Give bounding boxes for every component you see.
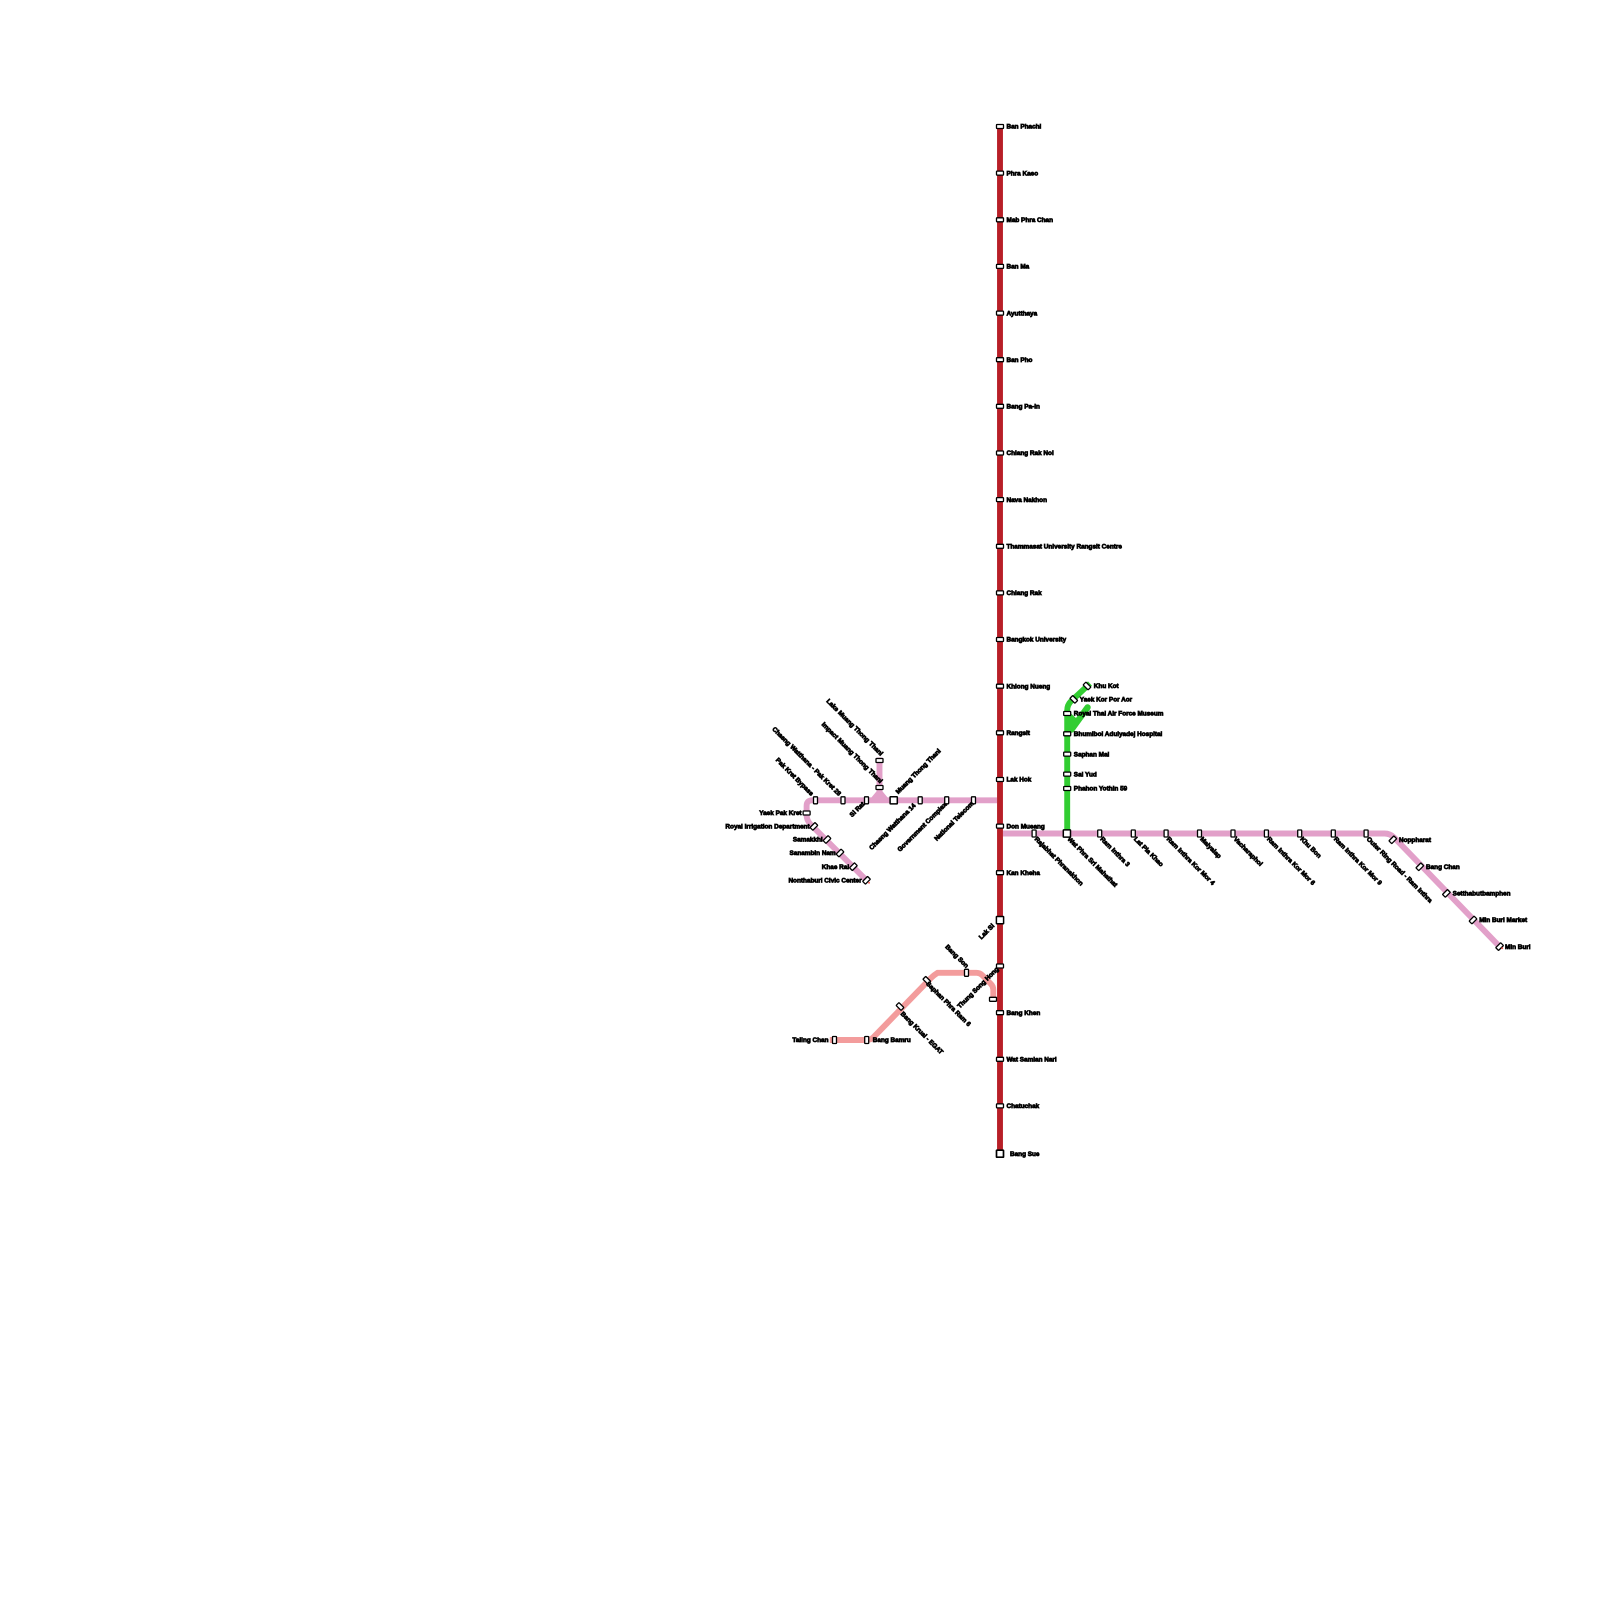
station Impact Muang Thong Thani (Pink line branch, rotated label) [820,721,884,789]
MRT Pink line Muang Thong Thani branch (vertical spur with flare) [869,758,890,801]
station Lake Muang Thong Thani (Pink line branch terminus, rotated label) [825,698,885,763]
svg-text:Bang Sue: Bang Sue [1010,1151,1040,1158]
station Chaeng Watthana - Pak Kret 28 (Pink line, rotated label above) [770,726,845,804]
station Kan Kheha (Dark Red line) [997,870,1041,877]
station Outer Ring Road - Ram Inthra (Pink line, rotated label below) [1364,830,1434,905]
station Don Mueang (Dark Red line) [997,823,1045,830]
station Vacharaphol (Pink line, rotated label below) [1231,830,1264,868]
station Rangsit (Dark Red line) [997,730,1031,737]
svg-text:Saphan Mai: Saphan Mai [1074,751,1110,758]
station Min Buri Market (Pink line, tilted) [1469,916,1528,924]
svg-text:Bang Pa-in: Bang Pa-in [1007,404,1040,411]
station Mab Phra Chan (Dark Red line) [997,217,1054,224]
station Bhumibol Adulyadej Hospital (BTS Sukhumvit line) [1064,731,1163,738]
svg-text:Chatuchak: Chatuchak [1007,1103,1040,1110]
station Yaek Kor Por Aor (BTS Sukhumvit line, tilted) [1070,696,1133,704]
station Yaek Pak Kret (Pink line, label left) [759,810,810,817]
station Chiang Rak Noi (Dark Red line) [997,450,1054,457]
station Min Buri (Pink line eastern terminus, diamond) [1496,943,1531,951]
station Royal Irrigation Department (Pink line, tilted) [725,823,817,831]
svg-text:Kan Kheha: Kan Kheha [1007,870,1041,877]
svg-text:Min Buri Market: Min Buri Market [1479,917,1528,924]
svg-text:Royal Irrigation Department: Royal Irrigation Department [725,824,810,831]
svg-text:Ban Ma: Ban Ma [1007,264,1030,271]
station Bang Kruai - EGAT (Light Red line, tilted, rotated label) [896,1003,944,1056]
BTS Sukhumvit line (Wat Phra Sri Mahathat - Khu Khot), bright green [1067,684,1090,834]
svg-text:Ayutthaya: Ayutthaya [1007,310,1038,317]
station Ram Inthra Kor Mor 9 (Pink line, rotated label below) [1331,830,1383,887]
svg-text:Bang Khen: Bang Khen [1007,1010,1041,1017]
station Rajabhat Phranakhon (Pink line, rotated label below) [1032,830,1084,887]
station Muang Thong Thani (Pink line interchange, rotated label above) [890,748,943,804]
svg-text:Mab Phra Chan: Mab Phra Chan [1007,217,1054,224]
svg-text:Bang Chan: Bang Chan [1426,864,1460,871]
SRT Light Red line (Taling Chan - Bang Son - stub), salmon [830,973,994,1040]
BTS Sukhumvit unopened stub branch towards Lam Luk Ka (green, dead end) [1070,707,1088,732]
SRT Dark Red commuter line (Ban Phachi - Bang Sue), vertical dark red trunk [997,124,1003,1153]
svg-text:Chiang Rak Noi: Chiang Rak Noi [1007,450,1054,457]
station Bang Bamru (Light Red line) [865,1037,911,1045]
svg-text:Bang Bamru: Bang Bamru [873,1037,911,1044]
svg-text:Khae Rai: Khae Rai [822,864,850,871]
station Pak Kret Bypass (Pink line, rotated label above) [774,757,818,804]
svg-text:Ban Pho: Ban Pho [1007,357,1033,364]
station Lak Si (Dark Red line interchange, rotated label) [978,917,1004,942]
station Khlong Nueng (Dark Red line) [997,683,1051,690]
station Phra Ram 6 (Light Red line, tilted, rotated label) [923,976,972,1028]
svg-text:Rangsit: Rangsit [1007,730,1031,737]
svg-text:Ban Phachi: Ban Phachi [1007,124,1042,131]
svg-text:Taling Chan: Taling Chan [792,1037,828,1044]
station Si Rat (Pink line, rotated label below) [849,797,869,819]
station stub terminus next to Dark Red line (Light Red line, unlabeled) [990,997,997,1001]
station Thung Song Hong (Dark Red line, rotated label) [956,964,1003,1010]
station Khu Bon (Pink line, rotated label below) [1298,830,1323,860]
svg-text:Don Mueang: Don Mueang [1007,823,1045,830]
station Maiyalap (Pink line, rotated label below) [1198,830,1223,860]
svg-text:Khu Kot: Khu Kot [1094,683,1120,690]
svg-text:Nonthaburi Civic Center: Nonthaburi Civic Center [788,878,862,885]
MRT Pink line west section (Nonthaburi Civic Center - National Telecom), light pink [807,800,997,880]
station Nava Nakhon (Dark Red line) [997,497,1048,504]
svg-text:Phahon Yothin 59: Phahon Yothin 59 [1074,786,1128,793]
station Sai Yud (BTS Sukhumvit line) [1064,771,1097,778]
svg-text:Chiang Rak: Chiang Rak [1007,590,1043,597]
station Ram Inthra 3 (Pink line, rotated label below) [1098,830,1131,869]
station Sanambin Nam (Pink line, tilted) [790,849,844,857]
svg-text:Noppharat: Noppharat [1399,837,1432,844]
station Thammasat University Rangsit Centre (Dark Red line) [997,544,1123,551]
station Ban Ma (Dark Red line) [997,264,1030,271]
station Taling Chan (Light Red western terminus, label left) [792,1037,836,1045]
station Bang Khen (Dark Red line) [997,1010,1041,1017]
svg-text:Bangkok University: Bangkok University [1007,637,1067,644]
station Wat Phra Sri Mahathat (Pink line interchange with BTS, rotated label below) [1063,830,1119,889]
station Ram Inthra Kor Mor 4 (Pink line, rotated label below) [1164,830,1216,887]
station Setthabutbamphen (Pink line, tilted) [1443,890,1511,898]
station Khu Kot (BTS Sukhumvit northern terminus, diamond) [1083,682,1119,690]
svg-text:Khlong Nueng: Khlong Nueng [1007,683,1051,690]
station Chiang Rak (Dark Red line) [997,590,1043,597]
svg-text:Sanambin Nam: Sanambin Nam [790,850,836,857]
svg-text:Sai Yud: Sai Yud [1074,771,1097,778]
station Bang Chan (Pink line, tilted) [1416,863,1460,871]
svg-text:Wat Samian Nari: Wat Samian Nari [1007,1057,1057,1064]
svg-text:Yaek Pak Kret: Yaek Pak Kret [759,810,802,817]
svg-text:Phra Kaeo: Phra Kaeo [1007,170,1039,177]
station Phra Kaeo (Dark Red line) [997,170,1039,177]
svg-text:Royal Thai Air Force Museum: Royal Thai Air Force Museum [1074,711,1164,718]
station Ayutthaya (Dark Red line) [997,310,1038,317]
MRT Pink line east section (Rajabhat Phranakhon - Min Buri), light pink [1003,834,1500,947]
station Phahon Yothin 59 (BTS Sukhumvit line) [1064,786,1128,793]
station Chatuchak (Dark Red line) [997,1103,1040,1110]
station Bang Sue (Dark Red line southern terminus, large box) [997,1150,1040,1158]
station Bang Pa-in (Dark Red line) [997,404,1040,411]
station Khae Rai (Pink line, tilted) [822,863,858,871]
station Ban Pho (Dark Red line) [997,357,1033,364]
station Nonthaburi Civic Center (Pink line western terminus, diamond) [788,876,870,884]
svg-text:Bhumibol Adulyadej Hospital: Bhumibol Adulyadej Hospital [1074,731,1163,738]
svg-text:Min Buri: Min Buri [1505,944,1531,951]
station Government Complex (Pink line, rotated label below) [897,797,949,854]
station Royal Thai Air Force Museum (BTS Sukhumvit line) [1064,711,1164,718]
station Samakkhi (Pink line, tilted) [793,836,831,844]
station Chaeng Watthana 14 (Pink line, rotated label below) [868,797,922,852]
station Ram Inthra Kor Mor 6 (Pink line, rotated label below) [1264,830,1316,887]
station Wat Samian Nari (Dark Red line) [997,1057,1057,1064]
svg-text:Lak Hok: Lak Hok [1007,777,1032,784]
station Ban Phachi (Dark Red line) [997,124,1042,131]
station Noppharat (Pink line, tilted) [1389,836,1432,844]
station Bang Son (Light Red line, rotated label above) [943,944,969,977]
svg-text:Setthabutbamphen: Setthabutbamphen [1453,891,1511,898]
svg-text:Samakkhi: Samakkhi [793,837,823,844]
svg-text:Yaek Kor Por Aor: Yaek Kor Por Aor [1080,697,1133,704]
station Lak Hok (Dark Red line) [997,777,1032,784]
station National Telecom (Pink line, rotated label below) [933,797,975,843]
station Saphan Mai (BTS Sukhumvit line) [1064,751,1110,758]
station Bangkok University (Dark Red line) [997,637,1067,644]
svg-text:Thammasat University Rangsit C: Thammasat University Rangsit Centre [1007,544,1123,551]
svg-text:Nava Nakhon: Nava Nakhon [1007,497,1048,504]
station Lat Pla Khao (Pink line, rotated label below) [1131,830,1164,868]
